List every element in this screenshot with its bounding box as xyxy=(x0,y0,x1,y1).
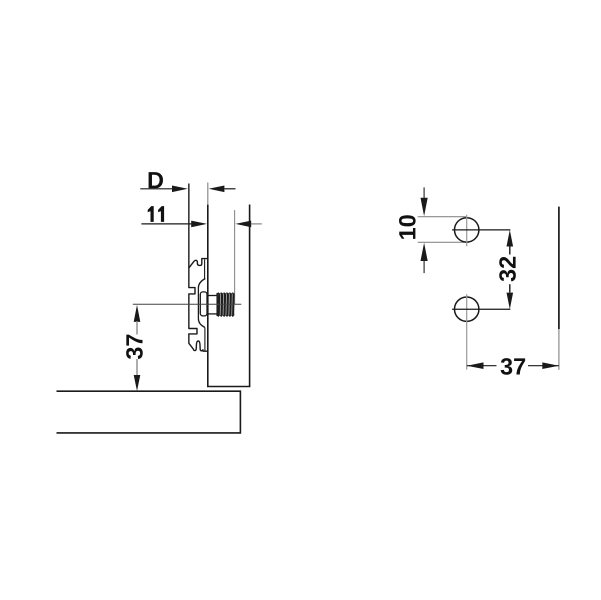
hole B (bottom) circle xyxy=(455,297,479,321)
front edge line of side panel xyxy=(558,207,560,329)
dim 11 line left part with arrow xyxy=(141,221,207,228)
hole B vertical centerline + extension to dim 37 (gray) xyxy=(466,294,468,369)
dim 11 label xyxy=(148,206,164,222)
extension line: plate mounting surface (vertical, for dim D) xyxy=(188,184,190,269)
dim 10 label (rotated) xyxy=(399,215,416,239)
dim D arrow right side xyxy=(209,186,236,193)
extension line: screw tip (gray vertical, for dim 11) xyxy=(234,210,236,304)
plate inner face line upper xyxy=(204,259,206,278)
screw flange (washer head) xyxy=(200,292,207,316)
hole B horizontal centerline + extension to dim 32 xyxy=(452,308,510,310)
screw boss (boot) outline xyxy=(198,279,205,328)
bottom panel (horizontal board) xyxy=(57,391,241,433)
hole A vertical centerline (gray) xyxy=(466,215,468,247)
dim 37 right : line xyxy=(467,365,559,367)
dim 32 : stem lower xyxy=(509,284,511,292)
dim 10 tangent line bottom (gray) xyxy=(418,241,469,243)
dim 32 : bottom arrow (down) xyxy=(507,293,514,310)
panel left face edge xyxy=(207,205,209,387)
dim 10 top arrow (down) xyxy=(421,187,428,216)
dim 37 left : bottom arrow (down) xyxy=(134,375,141,391)
dim 10 bottom arrow (up) xyxy=(421,243,428,273)
dim 10 tangent line top (gray) xyxy=(418,216,467,218)
euro screw thread xyxy=(217,293,234,317)
hole A horizontal centerline + extension to dim 32 xyxy=(452,229,510,231)
panel right face edge xyxy=(249,205,251,387)
front edge extension (gray) xyxy=(558,329,560,370)
hole A (top) circle xyxy=(455,218,479,242)
dim 32 : top arrow (up) xyxy=(507,230,514,247)
dim 37 right : left arrow xyxy=(467,362,484,369)
dim 37 left : stem lower xyxy=(136,359,138,376)
dim 37 left : top arrow (up) xyxy=(134,305,141,322)
plate inner face line lower xyxy=(204,328,206,351)
extension line: panel face gray upper part xyxy=(207,183,209,205)
panel bottom edge xyxy=(207,386,250,388)
dim 32 : stem upper xyxy=(509,247,511,255)
mounting plate outline xyxy=(189,259,208,352)
dim 37 right label xyxy=(497,356,529,376)
screw centerline xyxy=(133,303,242,305)
dim 37 left label (rotated) xyxy=(126,335,143,360)
dim 32 label (rotated) xyxy=(499,257,516,282)
dim D label xyxy=(149,172,163,188)
dim 11 arrow right side xyxy=(235,221,261,228)
dim D line left part with arrow xyxy=(140,186,188,193)
dim 37 left : stem upper xyxy=(136,321,138,335)
euro screw shank xyxy=(208,296,217,314)
dim 37 right : right arrow xyxy=(542,362,559,369)
